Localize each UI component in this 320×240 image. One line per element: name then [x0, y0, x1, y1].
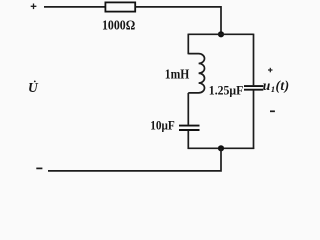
- wire bottom middle horizontal: [188, 147, 255, 149]
- svg-text:1mH: 1mH: [165, 67, 190, 82]
- wire bottom return: [48, 148, 221, 171]
- svg-text:1.25μF: 1.25μF: [209, 83, 244, 98]
- capacitor C2 10uF plates: [179, 126, 200, 130]
- wire left branch upper vertical: [187, 34, 189, 55]
- polarity - of u1: [270, 110, 275, 112]
- svg-text:u1(t): u1(t): [263, 78, 290, 94]
- polarity + of u1: [268, 68, 273, 73]
- svg-text:1000Ω: 1000Ω: [102, 19, 135, 34]
- junction node bottom: [218, 145, 224, 151]
- terminal + (top left): [31, 4, 37, 10]
- junction node top: [218, 31, 224, 37]
- inductor L coil: [188, 54, 204, 93]
- wire right branch lower vertical: [253, 91, 255, 150]
- svg-text:U: U: [28, 80, 39, 95]
- wire left branch lower vertical: [187, 131, 189, 149]
- wire left branch mid vertical: [187, 93, 189, 125]
- wire right branch upper vertical: [253, 34, 255, 86]
- terminal - (bottom left): [36, 167, 42, 169]
- wire branch horizontal: [188, 33, 253, 35]
- wire top-right segment with corner down: [136, 7, 222, 34]
- resistor R 1000ohm: [105, 2, 135, 11]
- wire top-left segment: [44, 6, 106, 8]
- capacitor C1 1.25uF plates: [244, 86, 263, 90]
- svg-text:10μF: 10μF: [150, 118, 175, 133]
